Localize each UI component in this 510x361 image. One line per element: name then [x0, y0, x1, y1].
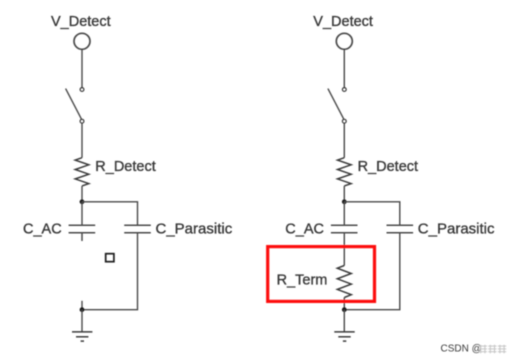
capacitor C_AC (right): [331, 225, 358, 233]
resistor R_Detect (left): [75, 158, 89, 186]
wire: C_Parasitic down to bottom net (right): [344, 234, 400, 310]
wire: R_Detect to node B (right): [343, 186, 345, 202]
svg-text:R_Detect: R_Detect: [95, 159, 155, 175]
junction bottom node (right): [342, 307, 347, 312]
wire: bottom junction to ground (right): [343, 310, 345, 332]
ground (left): [72, 332, 92, 341]
wire: V_Detect terminal to switch top contact (left): [81, 49, 83, 87]
wire: bottom junction to ground (left): [81, 310, 83, 332]
svg-text:R_Detect: R_Detect: [358, 159, 418, 175]
ground (right): [334, 332, 354, 341]
wire: node A to C_Parasitic branch (left): [82, 202, 138, 225]
capacitor C_Parasitic (left): [124, 225, 151, 233]
capacitor C_Parasitic (right): [387, 225, 414, 233]
watermark CJK glyph blocks: [479, 345, 507, 354]
switch SW1 top contact (left): [80, 88, 84, 92]
wire: V_Detect terminal to switch top contact (right): [343, 49, 345, 87]
capacitor C_AC (left): [69, 225, 96, 241]
svg-text:V_Detect: V_Detect: [313, 14, 373, 30]
svg-text:C_Parasitic: C_Parasitic: [418, 220, 495, 237]
annotation: red highlight box around R_Term: [268, 247, 375, 302]
wire: switch to resistor R_Detect (left): [81, 123, 83, 158]
svg-text:V_Detect: V_Detect: [51, 14, 111, 30]
resistor R_Term (right): [337, 266, 351, 298]
resistor R_Detect (right): [338, 158, 352, 186]
wire: C_AC to resistor R_Term (right): [343, 234, 345, 266]
junction node A (left): [80, 199, 85, 204]
switch SW2 bottom contact (right): [342, 119, 346, 123]
switch SW2 blade (right): [328, 89, 344, 120]
wire: R_Term to bottom junction (right): [343, 298, 345, 310]
switch SW2 top contact (right): [342, 88, 346, 92]
voltage source terminal circle V_Detect (left circuit): [74, 33, 90, 49]
wire: node A down to C_AC (left): [81, 202, 83, 225]
switch SW1 blade (left): [66, 89, 82, 120]
svg-text:C_AC: C_AC: [285, 221, 324, 237]
wire: C_Parasitic down to bottom net (left): [82, 234, 138, 310]
wire stub above bottom junction (left): [81, 301, 83, 310]
wire: R_Detect to node A (left): [81, 186, 83, 202]
svg-text:R_Term: R_Term: [277, 272, 328, 288]
wire: node B to C_Parasitic branch (right): [344, 202, 400, 225]
svg-text:CSDN @: CSDN @: [441, 343, 482, 354]
svg-text:C_AC: C_AC: [23, 221, 62, 237]
svg-text:C_Parasitic: C_Parasitic: [156, 220, 233, 237]
junction bottom node (left): [80, 307, 85, 312]
switch SW1 bottom contact (left): [80, 119, 84, 123]
wire: node B down to C_AC (right): [343, 202, 345, 225]
open-circuit marker square (left): [106, 254, 114, 262]
voltage source terminal circle V_Detect (right circuit): [336, 33, 352, 49]
wire: switch to resistor R_Detect (right): [343, 123, 345, 158]
junction node B (right): [342, 199, 347, 204]
